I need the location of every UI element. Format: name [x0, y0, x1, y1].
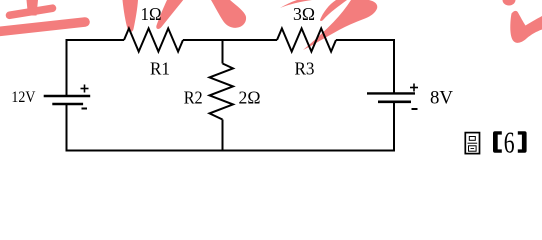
wire from R2 to bottom rail — [222, 120, 224, 151]
figure caption 【 bracket (drawn) — [493, 131, 502, 152]
watermark character fragment middle (strokes of 以-like glyph) — [123, 0, 247, 32]
battery V2 minus sign — [412, 108, 418, 110]
left wire upper (to 12V battery +) — [66, 39, 68, 96]
figure caption 圖 glyph (drawn) — [465, 133, 479, 154]
battery V1 plus sign — [81, 85, 89, 93]
battery V1 minus sign — [82, 108, 88, 110]
watermark character fragment left (bottom of 生-like glyph) — [0, 0, 85, 31]
battery V2 8V: long positive plate — [367, 92, 415, 94]
svg-text:12V: 12V — [11, 89, 35, 106]
battery V1 12V: long positive plate — [44, 95, 90, 97]
right wire lower (from 8V battery -) — [393, 102, 395, 151]
svg-text:1Ω: 1Ω — [141, 4, 162, 24]
resistor R3 (zigzag) — [277, 28, 336, 51]
bottom wire — [66, 150, 396, 152]
resistor R1 (zigzag) — [124, 28, 183, 51]
watermark check-mark fragment top-right (乂-like glyph) — [503, 0, 542, 43]
resistor R2 (zigzag) — [210, 64, 234, 120]
wire top-middle (R1 to node A to R3) — [183, 39, 277, 41]
svg-text:8V: 8V — [430, 89, 454, 109]
svg-text:R2: R2 — [184, 88, 203, 108]
right wire upper (to 8V battery +) — [393, 39, 395, 93]
svg-text:2Ω: 2Ω — [239, 88, 261, 108]
wire top-left (from V1 + terminal to R1) — [67, 39, 125, 41]
battery V2 plus sign — [410, 84, 418, 92]
watermark stroke cluster right (彡-like arcs) — [280, 0, 377, 50]
battery V1 12V: short negative plate — [52, 103, 83, 106]
svg-text:R3: R3 — [295, 58, 315, 78]
battery V2 8V: short negative plate — [378, 101, 411, 104]
left wire lower (from 12V battery -) — [66, 104, 68, 151]
svg-text:3Ω: 3Ω — [293, 4, 315, 24]
svg-text:R1: R1 — [150, 58, 170, 78]
svg-text:6: 6 — [504, 125, 515, 160]
figure caption 】 bracket (drawn) — [518, 131, 527, 152]
wire top-right (R3 to V2 + terminal) — [336, 39, 394, 41]
node A wire segment (junction at top of R2 branch) — [222, 39, 224, 64]
